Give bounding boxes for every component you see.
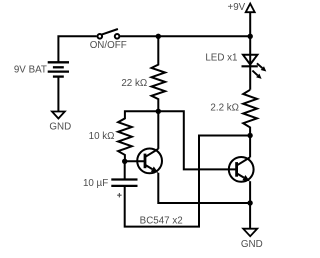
svg-text:LED x1: LED x1: [205, 52, 237, 63]
svg-text:GND: GND: [241, 239, 263, 250]
svg-text:2.2 kΩ: 2.2 kΩ: [210, 103, 239, 114]
svg-text:9V BAT: 9V BAT: [14, 64, 47, 75]
svg-text:22 kΩ: 22 kΩ: [121, 78, 147, 89]
svg-text:BC547 x2: BC547 x2: [140, 215, 183, 226]
svg-text:+9V: +9V: [227, 2, 245, 13]
svg-text:GND: GND: [49, 121, 71, 132]
svg-text:ON/OFF: ON/OFF: [90, 40, 127, 51]
svg-text:10 kΩ: 10 kΩ: [89, 131, 115, 142]
svg-text:10 µF: 10 µF: [83, 178, 108, 189]
